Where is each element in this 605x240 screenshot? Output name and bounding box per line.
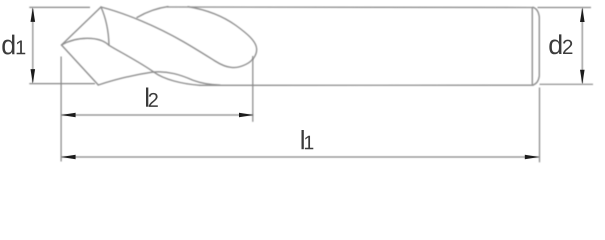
d1 top tick <box>29 6 90 8</box>
label l1 <box>301 130 303 149</box>
d2 top tick <box>538 7 592 9</box>
l2 dimension line <box>61 114 253 116</box>
d1 dimension line <box>32 9 34 83</box>
drill point lower edge <box>62 45 99 85</box>
flute face curve <box>101 7 109 45</box>
rear flute lower helix edge <box>109 45 200 85</box>
l1 arrowhead left <box>61 155 76 160</box>
front flute lower helix edge <box>98 72 220 85</box>
cutting lip curve <box>62 38 110 45</box>
d1 bottom tick <box>29 83 95 85</box>
drill point upper edge <box>62 7 102 45</box>
d2 arrowhead down <box>580 70 585 85</box>
land band left rising edge <box>137 7 168 18</box>
d2 arrowhead up <box>580 8 585 23</box>
label d2 <box>549 34 561 54</box>
label d1 <box>2 35 14 55</box>
shank end face with chamfer <box>533 7 539 85</box>
d1 arrowhead up <box>31 7 36 22</box>
d1 arrowhead down <box>31 69 36 84</box>
l2 arrowhead right <box>239 113 254 118</box>
drill body top edge <box>167 6 533 9</box>
l1 arrowhead right <box>525 155 540 160</box>
extension line at flute end <box>252 56 254 122</box>
extension line at shank end <box>539 88 541 163</box>
l1 dimension line <box>61 156 539 158</box>
d2 bottom tick <box>540 83 594 85</box>
shank chamfer start line <box>531 8 533 85</box>
land band top descending edge and rounded end cap <box>188 7 257 68</box>
extension line at drill tip <box>60 57 62 162</box>
label l2 <box>146 87 148 106</box>
drill body bottom edge <box>200 84 533 86</box>
land band lower long edge <box>101 7 232 68</box>
d2 dimension line <box>581 9 583 83</box>
l2 arrowhead left <box>61 113 76 118</box>
